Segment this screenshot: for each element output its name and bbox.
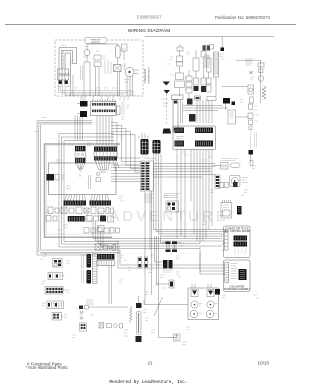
top harness wire (145, 36, 274, 38)
water tube heater chain (124, 296, 142, 342)
ribbon cable hatched (213, 52, 219, 96)
dark blob below box2 (212, 289, 220, 295)
svg-text:SENSOR: SENSOR (91, 42, 100, 44)
components right of bundle (183, 96, 249, 124)
svg-text:10/10: 10/10 (258, 361, 270, 366)
parts stack connector 4 (47, 301, 64, 309)
relay grid block (166, 201, 179, 212)
dispenser connector strip (215, 175, 220, 189)
text block under pin strip (144, 194, 168, 202)
corner nest right of board (111, 123, 148, 173)
svg-text:EI28BS56IS7: EI28BS56IS7 (137, 14, 162, 19)
wires board bottom to lower corner (93, 222, 222, 249)
connector vertical labels (122, 101, 124, 115)
wires from connector to funnels (75, 116, 112, 145)
board bottom left fan connector (64, 195, 87, 206)
top middle component column E (207, 58, 212, 92)
small parts cluster left of heater chain (99, 323, 123, 329)
svg-text:DISPENSER ASSEMBLY: DISPENSER ASSEMBLY (224, 288, 250, 291)
board bottom right fan connector (90, 195, 112, 206)
svg-text:ICE & WATER: ICE & WATER (230, 285, 245, 288)
striped bars below board (95, 244, 116, 304)
ice maker box (221, 200, 232, 218)
relay text block (164, 194, 180, 198)
control board edge connector strip (91, 100, 121, 116)
wire drop to bottom connector (159, 236, 181, 341)
water valve assembly box (188, 284, 219, 320)
defrost thermostat circle (84, 50, 90, 63)
vertical pin header strip (140, 161, 215, 191)
parts stack connector 3 (45, 287, 66, 295)
svg-text:FREEZER: FREEZER (143, 68, 147, 83)
small connector bottom left (80, 312, 87, 331)
tiny label texture dashes (34, 46, 259, 345)
freezer light lamp box (114, 65, 122, 72)
right box 2: dispenser interface (224, 260, 251, 292)
parts stack connector 2 (48, 273, 65, 280)
right door harness text (245, 59, 253, 65)
small component pair mid right (177, 150, 253, 244)
right chain vertical label (255, 132, 257, 147)
top middle component column D (201, 51, 206, 92)
main control board box (47, 163, 117, 195)
freezer bottom interior wire bundle (59, 84, 132, 101)
top small fuses (203, 45, 214, 51)
black junction square (221, 37, 225, 52)
small ribbon with two plugs (203, 46, 211, 68)
small dark box lower (169, 280, 174, 288)
thermostat assembly (213, 159, 240, 170)
svg-text:* Non-Illustrated Parts: * Non-Illustrated Parts (26, 365, 68, 370)
wires into right boxes (118, 234, 225, 274)
hi-limit thermostat pill (115, 46, 120, 65)
vertical labels left of pair (82, 254, 84, 283)
freezer labels vertical ticks (81, 60, 125, 80)
inverter board box (173, 126, 216, 150)
right door harness wire (222, 60, 266, 103)
freezer internal wires (71, 44, 133, 96)
top middle component column A (175, 50, 185, 96)
board bottom parts row (46, 207, 120, 233)
small relay box (122, 44, 128, 60)
board right-edge wires to pin strip (111, 165, 140, 182)
left funnel connector (75, 146, 86, 177)
right side chain (248, 104, 253, 162)
small marks above bottom-left connector (80, 311, 83, 320)
solenoid coils pair (162, 242, 181, 253)
top middle component column C (193, 50, 199, 91)
svg-text:CONNECTOR TO ICE: CONNECTOR TO ICE (226, 229, 249, 231)
mullion heater dashed wire (163, 94, 172, 134)
freezer sensor rects (94, 55, 101, 96)
control board connector blobs (77, 101, 88, 117)
bottom horizontal wire (144, 300, 188, 305)
parts stack connector 5 (52, 313, 64, 321)
top middle component column B (186, 70, 192, 98)
connector strip top right (177, 44, 183, 51)
evaporator fan motor circle (125, 68, 139, 77)
inverter box feed wires (172, 95, 213, 132)
auger motor (230, 176, 249, 187)
defrost heater dotted ladder (61, 51, 63, 69)
svg-text:Publication No: 5995578274: Publication No: 5995578274 (215, 15, 271, 20)
parts stack connector 1 (53, 259, 63, 268)
defrost heater box with element (58, 69, 70, 84)
header rule (5, 24, 296, 26)
text block and marks lower left center (86, 300, 94, 304)
freezer compartment dashed box (55, 38, 143, 96)
right box 1: dispenser control board (224, 226, 251, 258)
svg-text:LEADVENTURE: LEADVENTURE (85, 208, 229, 225)
fuse components pair (138, 257, 148, 268)
svg-text:Rendered by LeadVenture, Inc.: Rendered by LeadVenture, Inc. (109, 379, 187, 385)
freezer compartment label (143, 66, 151, 84)
svg-text:21: 21 (147, 361, 153, 366)
dark pin block right (237, 206, 242, 215)
diagonal wire (154, 297, 163, 316)
svg-text:COMPARTMENT: COMPARTMENT (148, 66, 151, 84)
evaporator coil loop (59, 48, 77, 85)
left vertical bundle with corner (37, 121, 120, 255)
right funnel connector (94, 147, 119, 173)
ground symbol 1 (163, 82, 171, 94)
dark connector pair below coils (162, 260, 173, 272)
svg-text:WIRING DIAGRAM: WIRING DIAGRAM (128, 28, 170, 34)
pcb pin grid connectors dark (141, 139, 161, 159)
central vertical bundle (145, 154, 227, 305)
dark vertical connector pair (87, 254, 98, 284)
